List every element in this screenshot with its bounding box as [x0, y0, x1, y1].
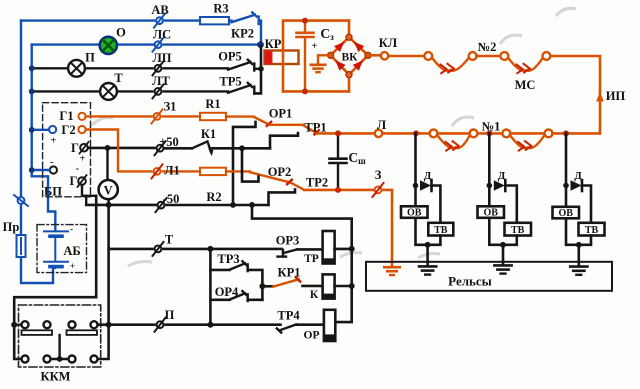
relay ОВ box branch2 [478, 206, 505, 218]
switch З1 [152, 109, 163, 123]
svg-text:ОВ: ОВ [407, 208, 422, 219]
node Сш top [335, 130, 341, 136]
svg-text:ОР5: ОР5 [218, 50, 242, 64]
wire [163, 170, 201, 172]
contact ТР1 common bar (black, from +50) [270, 133, 298, 148]
svg-text:ОР: ОР [304, 330, 320, 342]
box Рельсы (rails) [366, 262, 612, 291]
coupling №2 (wavy cable joint, left) [424, 52, 432, 60]
switch П [155, 318, 166, 332]
rectifier ВК bridge [348, 21, 351, 38]
wire joining bar branch2 [489, 218, 517, 245]
wire К row [262, 285, 273, 288]
svg-text:+: + [51, 136, 57, 147]
contact ОР5 [228, 60, 261, 71]
svg-text:Г: Г [71, 141, 79, 155]
capacitor Сш [337, 133, 339, 157]
svg-text:ЛП: ЛП [152, 51, 171, 65]
node (blue) [29, 89, 35, 95]
svg-text:Г1: Г1 [59, 109, 73, 123]
wire left feeder to ККМ [14, 196, 96, 359]
svg-text:V: V [104, 184, 113, 198]
node dot [258, 66, 264, 72]
wire joining bar branch1 [416, 218, 441, 245]
svg-text:Г2: Г2 [61, 123, 75, 137]
terminal Г (+50) with slash [80, 142, 89, 154]
wire row Т lamp [32, 90, 100, 92]
contact ТР5 [228, 83, 254, 94]
wire ВК to КЛ [368, 54, 381, 57]
ККМ terminals bottom row [51, 358, 69, 360]
ККМ terminals top row [22, 321, 29, 328]
svg-text:№1: №1 [482, 120, 501, 134]
svg-text:R3: R3 [213, 2, 228, 16]
node [302, 88, 308, 94]
contact ОР2 (orange blade long) [250, 172, 292, 184]
coupling №1 right [502, 130, 510, 138]
wire black vertical right of ОР5/ТР5 [254, 46, 261, 93]
wire -50 down to coils feeder row [252, 205, 352, 322]
relay coil ТР [323, 231, 335, 264]
svg-text:ТР3: ТР3 [217, 252, 239, 266]
node [11, 322, 17, 328]
svg-text:Д: Д [424, 170, 432, 182]
node [207, 322, 213, 328]
wire ТР3/ОР4 branch vertical [209, 249, 212, 325]
wire coil К to bus [335, 285, 352, 288]
switch on bus (blue) [14, 195, 28, 206]
contact ТР2 (orange blade) [292, 183, 305, 190]
wire blue row ЛС [32, 43, 100, 45]
ground of ВК (orange) [318, 55, 331, 63]
wire to ТР coil [297, 248, 323, 251]
wire ИП feeder [550, 56, 600, 133]
switch Л1 (red slash) [152, 164, 163, 178]
branch 2: wire down [488, 133, 491, 218]
svg-text:ОР1: ОР1 [269, 107, 293, 121]
svg-text:АВ: АВ [151, 3, 168, 17]
node V tap [105, 145, 111, 151]
svg-text:Т: Т [165, 233, 174, 247]
wire [165, 19, 200, 21]
wire [163, 115, 201, 117]
terminal minus [50, 166, 57, 173]
svg-text:Пр: Пр [3, 220, 20, 234]
switch ЛТ [153, 84, 164, 98]
node [302, 18, 308, 24]
switch ЛП [153, 61, 164, 75]
contact КР2 (blue) [229, 12, 261, 44]
svg-text:+: + [80, 154, 86, 165]
wire to К coil [303, 285, 323, 288]
wire blue left bus 1 [21, 21, 53, 283]
svg-text:+: + [312, 41, 318, 52]
svg-text:ТР4: ТР4 [277, 309, 300, 323]
wire V-minus bus down to Т and П rows [98, 205, 108, 359]
svg-text:П: П [165, 308, 175, 322]
svg-text:ТР1: ТР1 [304, 121, 326, 135]
node (blue) [29, 65, 35, 71]
svg-text:К1: К1 [201, 127, 216, 141]
contact КР1 (orange blade) [273, 277, 300, 286]
contact ОР1 (orange blade) [254, 117, 271, 126]
svg-text:КР: КР [265, 37, 282, 51]
battery АБ box [37, 225, 87, 273]
svg-text:-: - [76, 163, 80, 175]
terminal КЛ [381, 52, 388, 59]
svg-text:О: О [116, 26, 126, 40]
svg-text:ОВ: ОВ [558, 208, 573, 219]
branch 3: wire down [565, 133, 568, 218]
box ККМ (dash-dot) [19, 305, 101, 367]
svg-text:ОР3: ОР3 [276, 234, 300, 248]
svg-text:Рельсы: Рельсы [448, 274, 492, 289]
wire [270, 124, 304, 126]
wire to ККМ top circle1 [14, 324, 21, 326]
terminal Г2 [78, 126, 85, 133]
wire blue to terminal [32, 129, 49, 131]
arrow ИП (up) [596, 92, 604, 102]
svg-text:МС: МС [515, 78, 536, 92]
svg-text:КР2: КР2 [231, 27, 254, 41]
lamp О (green) [116, 43, 153, 45]
svg-text:Д: Д [498, 170, 506, 182]
contact ОР4 [210, 298, 229, 301]
wire [167, 204, 269, 207]
wire [226, 170, 250, 172]
lamp Т [100, 83, 117, 100]
svg-text:ЛТ: ЛТ [152, 74, 170, 88]
svg-text:ТВ: ТВ [511, 225, 525, 236]
switch З [373, 183, 384, 197]
contact ТР1 (orange blade) [303, 125, 319, 134]
diode Д branch2 [487, 183, 493, 189]
svg-text:ККМ: ККМ [41, 370, 71, 384]
switch АВ [154, 14, 165, 28]
wire ТР2 out row [304, 189, 374, 192]
svg-text:ТР: ТР [304, 253, 319, 265]
svg-text:ОР2: ОР2 [268, 165, 292, 179]
terminal Г (-50) with slash [78, 175, 87, 187]
relay ТВ box branch3 [579, 223, 605, 236]
svg-text:З1: З1 [164, 100, 177, 114]
svg-text:ТВ: ТВ [585, 225, 599, 236]
wire to ОР coil [296, 323, 324, 326]
svg-text:Л: Л [377, 118, 387, 132]
wire [477, 55, 501, 58]
terminal Г1 [78, 113, 85, 120]
wire З to ground [384, 190, 393, 266]
ground (orange, rails) [384, 267, 399, 275]
wire to КР node [164, 43, 261, 45]
contact ТР4 [277, 325, 296, 333]
wire blue left bus 2 [32, 45, 56, 231]
relay coil К [323, 274, 335, 298]
diode Д branch3 [563, 183, 569, 189]
wire Г2 to Л1 row [86, 130, 152, 172]
wire row П lamp [32, 67, 68, 69]
wire Т row [109, 248, 153, 251]
svg-text:R2: R2 [206, 190, 221, 204]
wire [164, 90, 229, 92]
wire [210, 147, 270, 150]
contact ТР2 common bar (black from -50) [269, 189, 296, 205]
node КР junction [257, 41, 264, 48]
contact ТР3 [210, 269, 229, 272]
svg-text:К: К [310, 289, 319, 301]
svg-text:БП: БП [44, 185, 62, 199]
node on -50 row [230, 202, 236, 208]
wire П row [97, 323, 154, 326]
relay КР coil [265, 51, 299, 65]
svg-text:№2: №2 [478, 40, 497, 54]
svg-text:ИП: ИП [606, 89, 626, 103]
contact ОР3 [278, 249, 298, 256]
lamp П [68, 60, 85, 77]
svg-text:П: П [85, 51, 95, 65]
wire +50 row [88, 147, 155, 150]
ground branch3 [570, 267, 587, 275]
resistor R3 [200, 17, 229, 24]
svg-text:+50: +50 [159, 135, 179, 149]
contact ОР1 back bar (black, from -50 via vertical A) [233, 122, 256, 205]
branch 1: wire down from Л row [414, 133, 417, 218]
node Сш bottom [335, 187, 341, 193]
ground branch1 [419, 266, 436, 274]
svg-text:Г: Г [70, 174, 78, 188]
wire КЛ to coupling [388, 55, 424, 58]
nodes on Л row [413, 130, 419, 136]
terminal blue left of Г2 [49, 126, 56, 133]
wire Л row couplings [375, 132, 600, 135]
wire Г4 jog down to -50 row [82, 185, 96, 196]
switch Т [153, 242, 164, 256]
svg-text:-: - [70, 224, 73, 234]
voltmeter V [106, 148, 108, 180]
resistor R1 [200, 113, 226, 120]
svg-text:-: - [50, 156, 54, 168]
node [239, 145, 245, 151]
contact К1 with arrow [192, 141, 211, 151]
relay ОВ box branch1 [401, 206, 428, 218]
wire orange frame around КР/С3 [283, 21, 349, 92]
switch +50 [155, 141, 166, 155]
svg-text:Т: Т [114, 71, 123, 85]
switch ЛС [153, 38, 164, 52]
switch -50 [156, 198, 167, 212]
contact ОР2 back bar (black from node B) [242, 148, 259, 181]
wire blue row AB (top) [21, 19, 154, 21]
svg-text:ВК: ВК [341, 52, 358, 64]
svg-text:+: + [70, 261, 75, 271]
wire [226, 115, 254, 117]
node -50 to coils row [249, 202, 255, 208]
svg-text:КР1: КР1 [278, 266, 301, 280]
node П row / bus [106, 322, 112, 328]
wire [164, 248, 282, 251]
svg-text:Л1: Л1 [164, 164, 180, 178]
wire Л row to right [317, 132, 375, 135]
relay ТВ box branch2 [505, 223, 532, 236]
capacitor С3 [304, 21, 306, 32]
relay ОВ box branch3 [553, 207, 580, 219]
terminal Л [375, 130, 382, 137]
node К row [259, 283, 265, 289]
svg-text:R1: R1 [205, 97, 220, 111]
node ТР3 branch [207, 246, 213, 252]
ККМ shorting bars [22, 330, 53, 335]
watermark smudges [92, 8, 576, 266]
resistor R2 [200, 168, 226, 175]
svg-text:Д: Д [574, 170, 582, 182]
svg-text:ОВ: ОВ [483, 208, 498, 219]
wire joining bar branch3 [566, 218, 591, 245]
fuse Пр [17, 235, 26, 257]
wire -50 row [86, 204, 156, 207]
svg-text:ТР2: ТР2 [306, 176, 328, 190]
svg-text:ТВ: ТВ [434, 225, 448, 236]
wire З1 row (orange) [86, 115, 152, 117]
svg-text:КЛ: КЛ [379, 36, 398, 50]
wire [166, 323, 281, 326]
ground branch2 [494, 265, 511, 273]
wire [164, 67, 229, 69]
svg-text:АБ: АБ [63, 244, 80, 258]
svg-text:ТР5: ТР5 [219, 75, 241, 89]
diode Д branch1 [413, 183, 419, 189]
relay ТВ box branch1 [428, 223, 453, 236]
svg-text:З: З [375, 168, 382, 182]
box БП dashed [43, 103, 91, 197]
ККМ riser [58, 335, 60, 359]
svg-text:-50: -50 [163, 192, 180, 206]
wire blue to minus terminal [32, 169, 50, 171]
wire coil ТР to bus [335, 248, 352, 251]
svg-text:ЛС: ЛС [153, 28, 171, 42]
coupling МС (wavy cable joint, right) [501, 52, 509, 60]
wire [166, 147, 193, 150]
battery АБ cells [44, 231, 68, 268]
node V minus [106, 202, 112, 208]
coupling №1 left [430, 130, 438, 138]
svg-text:ОР4: ОР4 [215, 285, 239, 299]
relay coil ОР [324, 310, 335, 341]
